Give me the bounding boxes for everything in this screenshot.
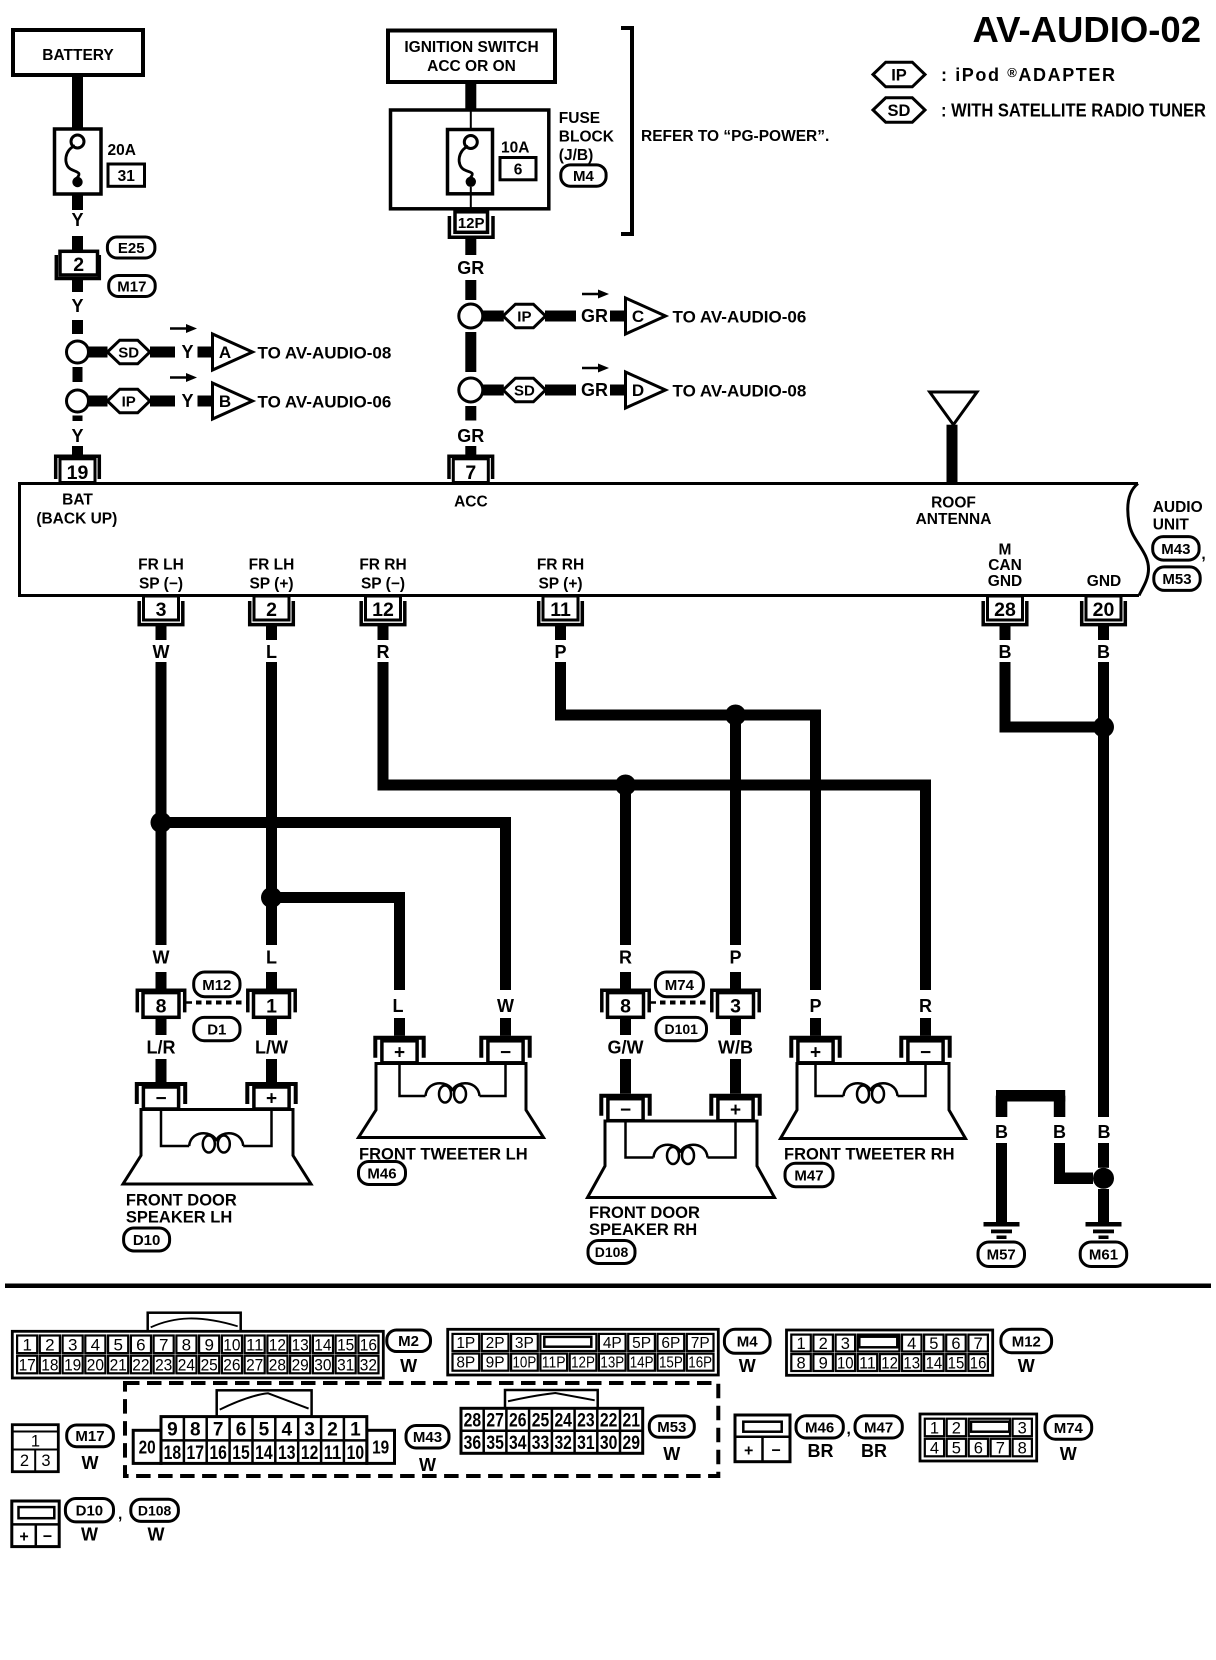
svg-text:21: 21 [623,1410,641,1431]
svg-text:26: 26 [223,1356,240,1375]
svg-text:M46: M46 [805,1419,834,1436]
svg-text:3P: 3P [515,1335,534,1352]
svg-text:12P: 12P [571,1355,595,1372]
svg-text:M43: M43 [1161,541,1190,558]
svg-text:R: R [377,642,390,662]
svg-text:L: L [266,948,277,968]
svg-text:M46: M46 [367,1165,396,1182]
svg-text:−: − [500,1042,511,1063]
svg-text:−: − [772,1443,781,1460]
svg-text:B: B [1098,1122,1111,1142]
svg-text:IGNITION SWITCH: IGNITION SWITCH [404,39,538,56]
svg-text:GR: GR [457,426,484,446]
svg-text:25: 25 [201,1356,218,1375]
svg-text:17: 17 [187,1443,205,1464]
svg-text:FR LH: FR LH [138,557,184,574]
svg-text:8: 8 [797,1355,806,1373]
svg-text:8: 8 [182,1335,191,1354]
svg-text:16: 16 [970,1355,987,1373]
svg-text:10P: 10P [513,1355,537,1372]
svg-text:M17: M17 [117,278,146,295]
svg-text:20: 20 [139,1437,156,1458]
svg-text:31: 31 [577,1433,595,1454]
svg-text:M4: M4 [737,1334,758,1351]
svg-text:C: C [632,307,644,326]
svg-text:35: 35 [486,1433,504,1454]
svg-text:ANTENNA: ANTENNA [916,511,992,528]
svg-text:: WITH SATELLITE RADIO TUNER: : WITH SATELLITE RADIO TUNER [941,101,1206,121]
svg-text:W: W [739,1356,756,1376]
svg-text:,: , [1201,546,1205,563]
svg-text:W: W [1018,1356,1035,1376]
svg-text:15P: 15P [659,1355,683,1372]
svg-text:10: 10 [347,1443,365,1464]
svg-text:27: 27 [486,1410,504,1431]
svg-text:D10: D10 [76,1503,104,1520]
svg-text:20A: 20A [108,142,136,159]
svg-text:2: 2 [819,1335,828,1353]
svg-text:W: W [419,1455,436,1475]
svg-text:GR: GR [457,258,484,278]
svg-text:4: 4 [907,1335,916,1353]
svg-text:22: 22 [600,1410,618,1431]
svg-text:6: 6 [514,162,523,179]
svg-text:M4: M4 [573,168,594,185]
svg-text:10: 10 [223,1335,240,1354]
svg-text:R: R [919,996,932,1016]
svg-text:11: 11 [324,1443,342,1464]
svg-text:27: 27 [246,1356,263,1375]
svg-text:BR: BR [808,1441,834,1461]
svg-text:2P: 2P [486,1335,505,1352]
svg-text:11: 11 [550,599,571,621]
svg-text:32: 32 [360,1356,377,1375]
svg-text:16: 16 [209,1443,227,1464]
svg-text:FUSE: FUSE [559,110,600,127]
svg-text:(J/B): (J/B) [559,147,593,164]
svg-text:9: 9 [167,1419,178,1440]
svg-text:M53: M53 [1162,571,1191,588]
svg-text:6: 6 [974,1440,983,1458]
svg-text:D: D [632,381,644,400]
svg-text:26: 26 [509,1410,527,1431]
svg-text:W: W [81,1525,98,1545]
svg-text:FRONT TWEETER RH: FRONT TWEETER RH [784,1146,955,1164]
svg-text:17: 17 [19,1356,36,1375]
svg-text:11: 11 [246,1335,263,1354]
svg-text:14: 14 [314,1335,331,1354]
svg-text:+: + [394,1042,405,1063]
svg-text:30: 30 [600,1433,618,1454]
svg-text:3: 3 [304,1419,315,1440]
svg-text:R: R [619,948,632,968]
svg-text:1P: 1P [456,1335,475,1352]
svg-text:−: − [920,1042,931,1063]
svg-text:D1: D1 [207,1021,226,1038]
svg-text:REFER TO “PG-POWER”.: REFER TO “PG-POWER”. [641,128,829,145]
svg-text:36: 36 [464,1433,482,1454]
svg-text:M47: M47 [794,1167,823,1184]
svg-text:20: 20 [87,1356,104,1375]
svg-text:TO AV-AUDIO-06: TO AV-AUDIO-06 [258,393,392,412]
svg-text:14P: 14P [630,1355,654,1372]
svg-text:3: 3 [156,599,167,621]
svg-text:TO AV-AUDIO-08: TO AV-AUDIO-08 [258,344,392,363]
svg-text:ROOF: ROOF [931,495,976,512]
svg-text:15: 15 [948,1355,965,1373]
svg-text:5: 5 [113,1335,122,1354]
svg-text:B: B [999,642,1012,662]
svg-text:13: 13 [292,1335,309,1354]
svg-text:7: 7 [996,1440,1005,1458]
svg-text:M2: M2 [398,1333,419,1350]
svg-text:3: 3 [841,1335,850,1353]
svg-text:+: + [266,1089,277,1110]
svg-text:GR: GR [581,306,608,326]
svg-text:9: 9 [819,1355,828,1373]
svg-text:12P: 12P [458,215,485,232]
svg-text:L/W: L/W [255,1038,288,1058]
svg-text:+: + [19,1529,28,1546]
svg-text:ACC: ACC [454,494,488,511]
svg-text:1: 1 [930,1419,939,1437]
svg-text:M74: M74 [665,977,695,994]
svg-text:SD: SD [888,102,911,120]
svg-text:IP: IP [891,66,907,84]
svg-text:SP (+): SP (+) [249,576,293,593]
svg-text:SP (+): SP (+) [538,576,582,593]
svg-text:Y: Y [71,426,83,446]
svg-text:14: 14 [926,1355,943,1373]
svg-text:21: 21 [110,1356,127,1375]
svg-text:4: 4 [282,1419,293,1440]
svg-text:1: 1 [31,1433,40,1451]
svg-text:M12: M12 [1012,1333,1041,1350]
svg-text:29: 29 [623,1433,641,1454]
svg-text:12: 12 [269,1335,286,1354]
svg-text:Y: Y [182,391,194,411]
svg-text:SD: SD [514,382,535,399]
svg-text:TO AV-AUDIO-08: TO AV-AUDIO-08 [673,382,807,401]
svg-text:A: A [219,343,231,362]
svg-text:23: 23 [577,1410,595,1431]
svg-text:8: 8 [190,1419,201,1440]
svg-text:M57: M57 [987,1247,1016,1264]
svg-text:P: P [729,948,741,968]
svg-text:15: 15 [232,1443,250,1464]
svg-text:UNIT: UNIT [1153,517,1190,534]
svg-text:B: B [995,1122,1008,1142]
svg-text:16: 16 [360,1335,377,1354]
svg-text:11P: 11P [542,1355,566,1372]
svg-text:8P: 8P [456,1355,475,1372]
svg-text:10: 10 [837,1355,854,1373]
svg-text:2: 2 [266,599,277,621]
svg-text:M43: M43 [413,1429,442,1446]
svg-text:AV-AUDIO-02: AV-AUDIO-02 [973,9,1202,50]
svg-text:3: 3 [68,1335,77,1354]
svg-text:D10: D10 [133,1232,161,1249]
svg-text:BATTERY: BATTERY [42,47,114,64]
svg-text:−: − [43,1529,52,1546]
svg-text:32: 32 [554,1433,572,1454]
svg-text:CAN: CAN [988,557,1022,574]
svg-text:E25: E25 [118,240,145,257]
svg-text:Y: Y [71,296,83,316]
svg-text:B: B [1053,1122,1066,1142]
svg-text:3: 3 [730,996,741,1018]
svg-text:M53: M53 [657,1419,686,1436]
svg-text:19: 19 [64,1356,81,1375]
svg-text:L: L [266,642,277,662]
svg-text:+: + [730,1100,741,1121]
svg-text:23: 23 [155,1356,172,1375]
svg-text:28: 28 [994,599,1016,621]
svg-text:2: 2 [327,1419,338,1440]
svg-text:6: 6 [236,1419,247,1440]
svg-text:SD: SD [118,344,139,361]
svg-text:7: 7 [213,1419,224,1440]
svg-text:15: 15 [337,1335,354,1354]
svg-text:24: 24 [554,1410,572,1431]
svg-text:4: 4 [91,1335,100,1354]
svg-text:24: 24 [178,1356,195,1375]
svg-text:2: 2 [73,254,84,276]
svg-text:9P: 9P [486,1355,505,1372]
svg-text:22: 22 [132,1356,149,1375]
svg-text:M47: M47 [864,1419,893,1436]
svg-text:M: M [999,542,1012,559]
svg-text:Y: Y [71,210,83,230]
svg-text:B: B [219,392,231,411]
svg-text:19: 19 [372,1437,389,1458]
svg-text:D108: D108 [595,1244,629,1260]
svg-text:5: 5 [952,1440,961,1458]
svg-text:2: 2 [20,1452,29,1470]
svg-text:29: 29 [292,1356,309,1375]
svg-text:+: + [810,1042,821,1063]
svg-text:GND: GND [988,573,1022,590]
svg-text:30: 30 [314,1356,331,1375]
svg-text:28: 28 [464,1410,482,1431]
svg-text:19: 19 [67,462,89,484]
svg-text:M74: M74 [1054,1420,1084,1437]
svg-text:5: 5 [929,1335,938,1353]
svg-text:14: 14 [255,1443,273,1464]
svg-text:9: 9 [204,1335,213,1354]
svg-text:12: 12 [301,1443,319,1464]
svg-text:5P: 5P [632,1335,651,1352]
svg-text:TO AV-AUDIO-06: TO AV-AUDIO-06 [673,308,807,327]
svg-text:FR RH: FR RH [537,557,584,574]
svg-text:4P: 4P [603,1335,622,1352]
svg-text:18: 18 [41,1356,58,1375]
svg-text:2: 2 [45,1335,54,1354]
svg-text:6: 6 [136,1335,145,1354]
svg-text:G/W: G/W [608,1038,644,1058]
svg-text:13: 13 [278,1443,296,1464]
svg-text:W/B: W/B [718,1038,753,1058]
svg-text:SP (−): SP (−) [139,576,183,593]
svg-text:D108: D108 [138,1502,172,1518]
svg-text:W: W [497,996,514,1016]
svg-text:2: 2 [952,1419,961,1437]
svg-text:IP: IP [517,308,531,325]
svg-text:FRONT DOOR: FRONT DOOR [126,1192,237,1210]
svg-text:1: 1 [350,1419,361,1440]
svg-text:13: 13 [903,1355,920,1373]
svg-text:BR: BR [861,1441,887,1461]
svg-text:34: 34 [509,1433,527,1454]
svg-text:11: 11 [859,1355,876,1373]
svg-text:8: 8 [1018,1440,1027,1458]
svg-text:W: W [82,1453,99,1473]
svg-text:L/R: L/R [147,1038,176,1058]
svg-text:13P: 13P [600,1355,624,1372]
svg-text:−: − [620,1100,631,1121]
svg-text:3: 3 [1018,1419,1027,1437]
svg-text:(BACK UP): (BACK UP) [36,511,117,528]
svg-text:GR: GR [581,380,608,400]
svg-text:W: W [153,948,170,968]
svg-text:4: 4 [930,1440,939,1458]
svg-text:P: P [809,996,821,1016]
svg-text:3: 3 [41,1452,50,1470]
svg-text:28: 28 [269,1356,286,1375]
svg-text:GND: GND [1087,573,1121,590]
svg-text:SPEAKER LH: SPEAKER LH [126,1209,232,1227]
svg-text:,: , [847,1421,851,1438]
svg-text:W: W [663,1444,680,1464]
svg-text:M61: M61 [1089,1247,1118,1264]
svg-text:1: 1 [22,1335,31,1354]
svg-text:FR RH: FR RH [359,557,406,574]
svg-text:10A: 10A [501,140,529,157]
svg-text:31: 31 [118,168,136,185]
svg-text:12: 12 [372,599,394,621]
svg-text:8: 8 [620,996,631,1018]
svg-text:7: 7 [159,1335,168,1354]
svg-text:L: L [393,996,404,1016]
svg-text:18: 18 [164,1443,182,1464]
svg-text:8: 8 [156,996,167,1018]
svg-text:M17: M17 [75,1428,104,1445]
svg-text:IP: IP [122,393,136,410]
svg-text:ACC OR ON: ACC OR ON [427,58,516,75]
svg-text:33: 33 [532,1433,550,1454]
svg-text:M12: M12 [202,977,231,994]
svg-text:16P: 16P [688,1355,712,1372]
svg-text:: iPod ®ADAPTER: : iPod ®ADAPTER [941,65,1117,85]
svg-text:P: P [554,642,566,662]
svg-text:SP (−): SP (−) [361,576,405,593]
svg-text:31: 31 [337,1356,354,1375]
svg-text:−: − [155,1089,166,1110]
svg-text:12: 12 [881,1355,898,1373]
svg-text:FR LH: FR LH [249,557,295,574]
svg-text:AUDIO: AUDIO [1153,499,1203,516]
svg-text:7: 7 [974,1335,983,1353]
svg-text:,: , [118,1506,122,1523]
svg-text:6: 6 [951,1335,960,1353]
svg-text:B: B [1097,642,1110,662]
svg-text:25: 25 [532,1410,550,1431]
svg-text:1: 1 [266,996,277,1018]
svg-text:FRONT DOOR: FRONT DOOR [589,1204,700,1222]
svg-text:W: W [1060,1444,1077,1464]
svg-text:W: W [148,1525,165,1545]
svg-text:Y: Y [182,342,194,362]
svg-text:6P: 6P [661,1335,680,1352]
svg-text:20: 20 [1093,599,1115,621]
svg-text:BAT: BAT [62,492,93,509]
svg-text:D101: D101 [664,1021,698,1037]
svg-text:1: 1 [797,1335,806,1353]
svg-text:W: W [400,1356,417,1376]
svg-text:7: 7 [465,462,476,484]
svg-text:7P: 7P [691,1335,710,1352]
svg-text:SPEAKER RH: SPEAKER RH [589,1221,697,1239]
svg-text:W: W [153,642,170,662]
svg-text:BLOCK: BLOCK [559,129,615,146]
svg-text:5: 5 [259,1419,270,1440]
svg-text:+: + [744,1443,753,1460]
